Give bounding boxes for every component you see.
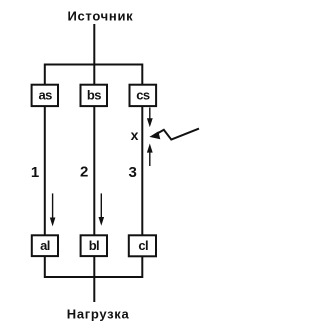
svg-text:al: al <box>40 238 50 253</box>
svg-text:1: 1 <box>31 164 39 181</box>
svg-text:x: x <box>131 127 139 143</box>
svg-text:Нагрузка: Нагрузка <box>67 306 130 321</box>
svg-text:2: 2 <box>80 164 88 181</box>
svg-text:3: 3 <box>129 164 137 181</box>
svg-text:as: as <box>38 88 52 103</box>
svg-text:cl: cl <box>138 238 148 253</box>
svg-text:bl: bl <box>89 238 99 253</box>
svg-text:Источник: Источник <box>67 8 133 23</box>
svg-text:bs: bs <box>87 88 101 103</box>
svg-text:cs: cs <box>136 88 150 103</box>
